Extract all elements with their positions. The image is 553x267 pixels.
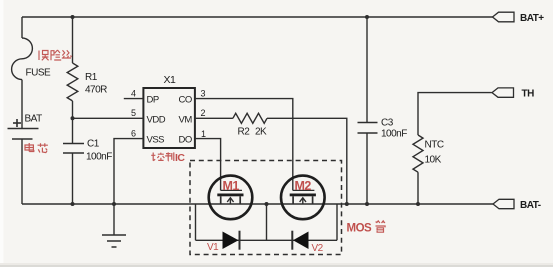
node VDD junction [71,116,75,120]
transistor M1 channel bar [217,194,243,197]
svg-text:VSS: VSS [147,135,165,146]
node rail VM [345,202,349,206]
capacitor C1 plates [63,144,84,154]
transistor M2 legs [292,196,294,204]
svg-text:10K: 10K [425,155,442,166]
svg-text:470R: 470R [85,85,107,96]
transistor M1 legs [220,196,222,204]
resistor R2 2K [233,113,267,123]
wire C1 to bottom rail [72,153,74,204]
transistor M2 channel bar [290,194,316,197]
svg-text:M1: M1 [223,179,240,193]
node rail C1 [71,202,75,206]
wire C3 branch from top rail [366,17,368,123]
transistor M1 circle [209,176,253,220]
thermistor NTC 10K [413,135,423,172]
diode V2 [293,232,309,250]
terminal BAT+ [493,12,515,22]
svg-text:C3: C3 [381,118,394,129]
svg-text:5: 5 [131,108,136,118]
transistor M1 arrow [227,198,233,202]
svg-text:V1: V1 [207,242,219,253]
svg-text:R1: R1 [85,72,98,83]
svg-text:BAT: BAT [25,114,43,125]
svg-text:BAT-: BAT- [520,200,541,211]
transistor M1 gate bar [221,189,242,191]
svg-text:MOS: MOS [347,222,373,234]
svg-text:2K: 2K [255,127,267,138]
svg-text:4: 4 [131,89,136,99]
wire battery to bottom rail [21,139,23,204]
svg-text:100nF: 100nF [86,152,112,163]
svg-text:2: 2 [201,108,206,118]
terminal BAT- [493,199,514,208]
svg-text:IC: IC [175,152,185,164]
wire diode loop bottom [196,239,338,241]
node rail ground [112,202,116,206]
op-amp/IC X1 box [143,88,195,148]
svg-text:CO: CO [179,95,192,106]
node rail mid diodes [265,202,269,206]
MOS dashed box [190,161,342,255]
svg-text:3: 3 [201,89,206,99]
wire diode loop right leg [336,204,338,240]
node rail NTC [416,202,420,206]
svg-text:R2: R2 [238,127,251,138]
node top R1 [71,15,75,19]
svg-text:X1: X1 [164,74,177,86]
wire pin3 CO to M2 gate [195,99,293,191]
wire fuse to battery [21,80,23,129]
wire pin1 DO to M1 gate [195,139,221,191]
transistor M2 arrow [300,198,306,202]
wire pin5 VDD to R1 node [73,117,144,119]
svg-text:V2: V2 [312,243,324,254]
transistor M2 circle [281,176,325,220]
wire R1 branch top [72,17,74,63]
resistor R1 470R [67,63,78,101]
label control IC chinese 控制IC [151,152,174,161]
svg-text:C1: C1 [87,139,100,150]
svg-text:TH: TH [522,88,535,99]
wire pin4 DP stub [124,98,144,100]
wire NTC to bottom rail [417,172,419,204]
wire VDD node to C1 [72,118,74,143]
ground [102,235,126,247]
diode V1 [223,232,239,250]
wire pin6 VSS to ground branch [114,139,143,204]
svg-text:FUSE: FUSE [26,68,52,79]
fuse FUSE [12,38,33,80]
wire C3 to bottom rail [366,133,368,204]
svg-text:DO: DO [179,135,192,146]
battery plus sign [13,119,21,127]
node top C3 [365,15,369,19]
node rail C3 [365,202,369,206]
wire bottom rail B- [22,203,493,205]
wire diode loop middle leg [266,204,268,240]
svg-text:M2: M2 [295,179,312,193]
wire ground below rail [113,204,115,235]
wire R1 to VDD node [72,101,74,118]
wire diode loop left leg [195,204,197,240]
svg-text:6: 6 [131,129,136,139]
wire top rail B+ [22,16,493,18]
wire left vertical (top to fuse) [21,17,23,38]
svg-text:NTC: NTC [425,140,444,151]
terminal TH [492,88,514,97]
wire TH line [418,93,492,135]
svg-text:1: 1 [201,129,206,139]
label cell chinese 电芯 [25,143,48,153]
capacitor C3 plates [358,123,378,134]
battery BAT plates [8,129,39,140]
label fuse chinese 保险丝 [39,50,72,60]
svg-text:BAT+: BAT+ [520,13,544,24]
wire R2 to VM drop [267,118,347,204]
svg-text:VDD: VDD [147,114,166,125]
wire pin2 VM to R2 [195,117,233,119]
transistor M2 gate bar [293,189,315,191]
svg-text:DP: DP [147,95,159,106]
svg-text:VM: VM [179,114,193,125]
svg-text:100nF: 100nF [381,129,407,140]
